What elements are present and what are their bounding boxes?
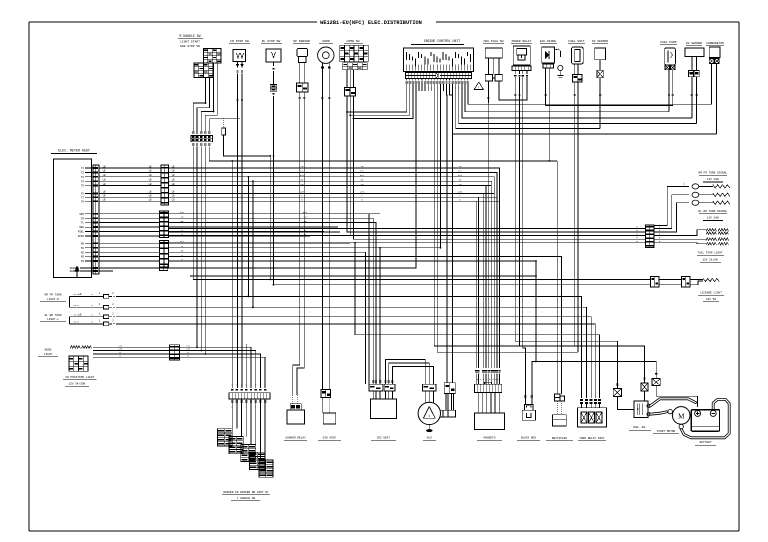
winker connector strip [229,393,270,399]
ECU pin stubs mid [424,84,426,91]
handle sw wire to headlight row1 [196,147,198,348]
exc diode connector [543,64,554,68]
svg-text:ENGINE CONTROL UNIT: ENGINE CONTROL UNIT [424,39,460,43]
head light wires to winker strip [179,347,251,388]
svg-text:T3: T3 [81,176,85,179]
turn relay assy [577,408,606,427]
svg-text:WE12B1-EU(NFC) ELEC.DISTRIBUTI: WE12B1-EU(NFC) ELEC.DISTRIBUTION [320,20,422,26]
ECU pin 16 wire to carburetor [453,84,717,134]
svg-text:POWER RELAY: POWER RELAY [512,40,532,43]
svg-text:T8: T8 [81,200,85,203]
ECU pin 18 wire to O2 sensor wide [459,84,697,123]
svg-text:ELEC. METER ASSY: ELEC. METER ASSY [58,149,90,153]
svg-text:M4: M4 [81,260,85,263]
CDI unit block [371,399,397,418]
R handle switch connector lower [194,63,213,78]
fuel pump connector [665,65,670,70]
HT lead connector [444,383,455,394]
svg-text:FUEL UNIT: FUEL UNIT [568,40,584,43]
svg-text:WINKER RELAY: WINKER RELAY [286,436,306,439]
ACG connector [423,384,437,391]
svg-text:B/W: B/W [458,174,463,177]
power relay wire to starter connector A [515,77,617,388]
turn relay pin connectors [580,399,583,401]
svg-text:12V 34/35W: 12V 34/35W [68,381,85,385]
power relay wire to black box [523,77,526,405]
meter strip1 [161,165,168,205]
comb sw inline connector [344,88,355,97]
svg-text:TR: TR [81,217,85,220]
svg-text:M2: M2 [81,251,85,254]
FR turn right row [97,295,99,297]
head light block [69,356,88,371]
warning triangle [474,82,483,90]
diode assy ticks [321,397,323,413]
ECU connector strip [406,73,472,79]
svg-text:T6: T6 [81,193,85,196]
ECU pin 1 wire to comb sw [347,84,407,112]
bus taps to turn light rows [247,177,249,297]
meter group2 wire to CDI B [168,218,373,384]
exc diode wire to rectifier [548,160,550,162]
svg-text:TURN RELAY ASSY: TURN RELAY ASSY [579,437,604,440]
turn row wires to turn relay [116,296,582,398]
magneto bundle ticks [498,370,500,372]
AC generator [418,402,440,424]
meter wire group2 [99,213,160,215]
rectifier ticks [556,401,558,415]
meter group2 wire short2 [168,235,352,237]
winker relay [287,410,304,424]
ECU pin stubs [418,84,420,91]
diode assy connector [321,390,331,398]
svg-text:B/W: B/W [303,211,308,214]
svg-text:T4: T4 [81,180,85,183]
starter connector A [616,383,618,385]
ECU pin 19 wire to O2 sensor wide [462,84,692,118]
svg-text:DIO ASSY: DIO ASSY [323,436,337,439]
svg-text:T1: T1 [81,167,85,170]
handle sw wire to license light [193,147,650,280]
handle sw wire to winker strip [209,147,557,161]
meter group1 wires to magneto bundle [168,168,499,368]
start motor [672,407,690,425]
svg-text:ACG: ACG [427,436,432,439]
svg-text:MAG. SW.: MAG. SW. [633,426,646,429]
meter pin labels [85,167,93,169]
license light connector 1 [650,276,658,287]
license light wires [659,278,682,280]
magneto connector strip [474,384,501,392]
FR stop sw wires to winker strip [237,79,239,388]
meter group3 wire to CDI D [168,247,440,249]
svg-text:BLACK BOX: BLACK BOX [521,436,536,439]
svg-text:RECTIFIER: RECTIFIER [552,437,567,440]
CDI pin ticks [372,380,374,382]
ECU pin 13 stub [442,84,444,91]
meter group3 wire to rectifier [168,257,561,394]
ECU pin 15 wire to HT lead [450,84,453,383]
svg-text:HORN: HORN [322,39,330,43]
ACG side box [440,410,455,417]
black box connector [525,405,534,411]
starter cable to motor [650,412,667,414]
meter group3 wire B [168,252,365,384]
winker connector block 3 [241,444,256,461]
elec meter assy block [53,159,91,278]
ECU pin 20 wire to fuel pump [465,84,669,112]
handle sw junction dots [205,102,207,104]
O2 sensor connector pair [689,70,694,76]
starter cable to battery [650,399,695,406]
CDI unit connector pair B [384,384,395,391]
ECU pin wires [406,79,408,81]
meter wire group3 [99,242,160,244]
svg-text:BATTERY: BATTERY [700,441,712,444]
junction dots extra [269,279,271,281]
fuse junction vertical to license [274,104,651,285]
svg-text:O2 SENSOR: O2 SENSOR [686,42,702,45]
magneto pin wires [478,392,480,413]
horn wires to diode assy [321,103,323,390]
svg-text:LB G: LB G [73,293,79,296]
ACG ground [428,425,430,430]
black box [522,410,535,420]
R handle switch connector upper [204,49,222,64]
starter connector C [655,373,657,375]
winker strip pin labels top [231,389,233,391]
svg-text:W/B: W/B [360,191,365,194]
ECU pin 10 wire to fuel unit [434,84,574,346]
lamp connector strip [640,227,642,229]
winker strip col wire [245,344,247,388]
RL stop sw inline connector [270,85,276,88]
svg-text:W/B: W/B [458,191,463,194]
RR turn right row [97,316,99,318]
SP sensor wires to winker relay [293,103,300,395]
license bulb [703,278,719,281]
svg-text:Y/L: Y/L [300,170,305,173]
meter group2 wire to lamp connector [168,227,645,229]
diode hook lead [555,49,561,57]
svg-text:M0: M0 [81,242,85,245]
lower bus wire [190,275,536,277]
handle sw wire to headlight row2 [200,147,202,351]
ECU pin 17 wire to O2 sensor [456,84,600,129]
svg-text:START MOTOR: START MOTOR [657,430,676,433]
ECU pin 12 wire to bus [439,84,441,248]
svg-text:!: ! [478,87,480,91]
winker relay ticks [292,395,294,404]
svg-text:B/W: B/W [360,174,365,177]
magnetic switch [634,401,648,418]
spark plug sw wire to power relay [499,77,527,100]
turn bulb row 1 [654,186,689,225]
winker strip pin wires down [231,400,233,402]
battery ground cable [681,399,729,437]
meter wire group1 [99,167,161,169]
magneto block [474,413,504,429]
svg-text:MAG PLUG SW: MAG PLUG SW [484,40,504,43]
carburetor connector [709,59,714,64]
svg-text:WINKER FR WINKER RR ASSY RL: WINKER FR WINKER RR ASSY RL [223,491,269,494]
svg-text:LIGHT-L: LIGHT-L [47,318,59,321]
svg-text:RL STOP SW: RL STOP SW [262,39,281,43]
black box wire to starter connector C [532,362,656,405]
tail bulb wire 3 [654,243,706,244]
svg-text:FUEL: FUEL [78,231,85,234]
svg-text:12V 10W: 12V 10W [707,217,719,220]
ECU pin 2 wire to comb sw [350,84,410,115]
fuel unit inline connector [573,75,583,83]
svg-text:LIGHT START: LIGHT START [180,41,200,44]
svg-text:NEU: NEU [79,226,84,229]
svg-text:LB G: LB G [73,321,79,324]
head light inline connector [169,345,179,360]
engine control unit [404,48,474,72]
svg-text:SP SENSOR: SP SENSOR [293,39,310,43]
svg-text:COMB SW: COMB SW [347,39,360,43]
vertical wire tick labels [236,99,238,101]
license light connector 2 [682,276,690,287]
meter bottom inline connector [160,264,168,271]
power relay connector strip [512,66,531,70]
diode assy [323,413,336,424]
ECU pin 21 wire to carburetor [468,84,711,104]
svg-text:RL RR TURN SIGNAL: RL RR TURN SIGNAL [699,210,728,213]
head light wires [93,346,169,348]
svg-text:HEAD: HEAD [45,349,52,352]
meter ground [75,266,79,271]
meter group2 wire short [168,231,340,233]
winker connector block 2 [229,437,243,454]
spark plug wire to magneto [488,81,490,368]
svg-text:O2 SENSOR: O2 SENSOR [592,40,608,43]
rectifier connector [554,394,560,401]
comb sw wires to lamp connector [347,96,646,232]
meter group2 wire to CDI C [168,223,376,385]
HT lead wires [445,394,447,411]
svg-text:G/Y: G/Y [180,240,185,243]
power relay wire to starter connector B [520,77,645,383]
tail bulb cluster upper [654,230,706,236]
handle sw wire to headlight row3 [204,147,206,355]
battery [691,410,719,432]
SP sensor inline connector [297,83,309,92]
winker connector block 4 [250,452,266,469]
svg-text:12V 21/5W: 12V 21/5W [702,257,717,261]
svg-text:Y/L: Y/L [360,170,365,173]
svg-text:FR POSITION LIGHT: FR POSITION LIGHT [66,376,95,379]
svg-text:T7: T7 [81,196,85,199]
svg-text:SPD: SPD [79,213,84,216]
svg-text:LB G: LB G [73,314,79,317]
meter group3 wire down [168,261,536,362]
svg-text:LICENSE LIGHT: LICENSE LIGHT [700,291,722,294]
ECU pin 11 wire to fuel unit [437,84,578,352]
meter connector strip [93,165,99,274]
svg-text:R HANDLE SW: R HANDLE SW [179,34,200,38]
svg-text:TL: TL [81,222,85,225]
svg-text:L HANDLE SW: L HANDLE SW [237,497,256,500]
CDI unit connector pair A [369,384,383,391]
svg-text:12V 10W: 12V 10W [707,178,719,181]
svg-text:B/W: B/W [300,174,305,177]
junction vertical license [269,156,271,280]
handle switch wires down [205,77,207,103]
ECU pin 14 wire to HT lead [446,84,449,383]
svg-text:SPD2: SPD2 [78,235,85,238]
exc diode wire to fuel pump [546,104,673,106]
svg-text:MAGNETO: MAGNETO [484,436,496,439]
svg-text:EXC.DIODE: EXC.DIODE [540,40,556,43]
svg-text:T5: T5 [81,185,85,188]
winker relay connector [290,404,301,410]
svg-text:M: M [678,412,685,420]
svg-text:CDI UNIT: CDI UNIT [377,436,391,439]
ECU pin 3 wire to comb sw [353,84,413,118]
svg-text:W/B: W/B [300,191,305,194]
fuse inline [223,118,225,128]
svg-text:LIGHT: LIGHT [44,353,53,356]
svg-text:ENG STOP SW: ENG STOP SW [180,45,200,48]
rectifier [553,415,567,426]
tail bulb cluster lower [654,238,706,240]
handle switch connector pair [192,131,194,133]
svg-text:RL RR TURN: RL RR TURN [45,314,62,317]
svg-text:CARBURETOR: CARBURETOR [706,42,724,45]
svg-text:RR FR TURN SIGNAL: RR FR TURN SIGNAL [699,171,728,174]
svg-text:FR STOP SW: FR STOP SW [230,39,249,43]
meter strip3 [160,240,169,267]
ECU pin 4 wire to meter [99,84,416,268]
winker connector block 1 [218,429,233,446]
starter connector B [643,377,645,379]
svg-text:M3: M3 [81,256,85,259]
svg-text:TAIL STOP LIGHT: TAIL STOP LIGHT [697,252,722,255]
turn bulb row 3 [654,203,689,232]
small bulb symbol [558,65,563,70]
meter group2 wire to CDI A [168,214,369,384]
svg-text:12V 5W: 12V 5W [706,298,716,301]
svg-text:LB G: LB G [73,304,79,307]
FR turn left row [97,306,99,308]
handle sw staircase to left [193,103,205,131]
O2 sensor inline connector [597,70,603,78]
svg-text:T2: T2 [81,172,85,175]
svg-text:B/W: B/W [180,211,185,214]
svg-text:FUEL PUMP: FUEL PUMP [660,41,676,44]
meter bottom wire 2 [99,270,113,272]
svg-text:M1: M1 [81,247,85,250]
CDI wires to ACG connector [386,360,426,385]
svg-text:RR FR TURN: RR FR TURN [45,294,62,297]
head light bulbs [70,346,80,349]
svg-text:LIGHT-R: LIGHT-R [47,298,59,301]
meter group3 wire A [168,242,645,244]
RR turn left row [97,323,99,325]
svg-text:Y/L: Y/L [458,170,463,173]
meter strip2 [160,211,169,238]
border frame [29,21,317,23]
turn bulb row 2 [654,195,689,229]
spark plug sw connector [485,75,492,81]
winker connector block 5 [259,460,273,477]
